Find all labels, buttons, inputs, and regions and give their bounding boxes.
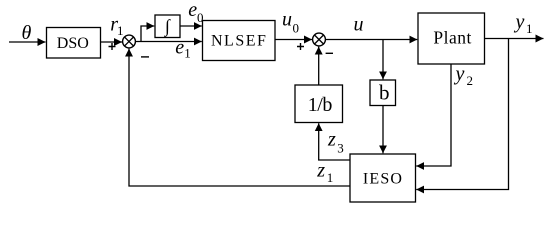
svg-text:1: 1: [526, 21, 533, 36]
svg-text:u: u: [282, 8, 292, 30]
svg-text:0: 0: [293, 20, 300, 35]
svg-text:Plant: Plant: [433, 28, 471, 48]
svg-text:e: e: [188, 0, 197, 21]
svg-text:IESO: IESO: [363, 171, 403, 188]
svg-text:DSO: DSO: [57, 35, 89, 52]
svg-text:e: e: [175, 37, 184, 59]
svg-text:y: y: [514, 11, 525, 33]
svg-text:y: y: [454, 63, 465, 85]
svg-text:1/b: 1/b: [308, 94, 333, 116]
svg-text:z: z: [316, 160, 325, 182]
svg-text:b: b: [379, 81, 390, 105]
svg-text:u: u: [354, 13, 364, 35]
svg-text:2: 2: [467, 73, 474, 88]
svg-text:θ: θ: [22, 22, 32, 44]
svg-text:∫: ∫: [164, 16, 171, 37]
svg-text:1: 1: [327, 170, 334, 185]
svg-text:3: 3: [337, 141, 344, 156]
svg-text:1: 1: [184, 46, 191, 61]
svg-text:1: 1: [117, 23, 124, 38]
svg-text:z: z: [327, 128, 336, 150]
svg-text:NLSEF: NLSEF: [211, 33, 267, 50]
